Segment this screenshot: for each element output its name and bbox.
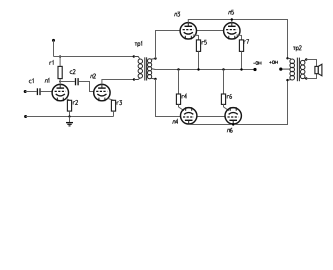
resistor R2 (r2): [67, 100, 71, 116]
tr2 primary winding: [290, 59, 295, 80]
wire V5 cathode to R7: [236, 35, 241, 40]
ground: [66, 117, 73, 126]
node tr2 primary top: [286, 57, 288, 59]
label r1: [50, 61, 53, 65]
label r5: [202, 40, 207, 44]
label r6: [227, 94, 232, 98]
label л5: [228, 10, 233, 14]
wire lower grid bus between tubes: [197, 116, 225, 118]
wire tr1 secondary bottom lead: [151, 77, 156, 80]
node V5 plate on rail: [231, 18, 233, 20]
label л4: [173, 120, 178, 124]
node tr1 primary bottom: [133, 78, 135, 80]
tr2 core: [297, 58, 299, 82]
wire tr1 bottom to lower grids: [156, 79, 181, 117]
node R5 on rail: [197, 68, 199, 70]
node R7 on rail: [240, 68, 242, 70]
wire R4 to V4 cathode: [179, 104, 184, 110]
node tr1 secondary top: [154, 57, 156, 59]
wire plate junction to C2: [60, 81, 75, 83]
wire tr2 secondary bottom lead: [304, 77, 306, 79]
resistor R7 (r7): [239, 40, 243, 70]
node tr1 primary top: [133, 55, 135, 57]
node R4 on rail: [177, 68, 179, 70]
label -ан: [253, 62, 261, 65]
label тр2: [293, 46, 301, 52]
wire V1 cathode to R2: [66, 98, 69, 100]
tube Л6 (output V6, inverted): [225, 107, 241, 124]
node -ан terminal: [253, 68, 256, 71]
label л2: [90, 74, 95, 78]
wire upper grid bus between tubes: [197, 30, 224, 32]
wire ground rail: [26, 116, 114, 118]
tr1 core: [145, 57, 147, 80]
node R1 top junction: [59, 55, 61, 57]
wire R6 to V6 cathode: [224, 104, 229, 110]
wire tr1 top to upper grids: [156, 31, 181, 59]
transformer тр1: [133, 55, 157, 80]
speaker: [315, 64, 322, 76]
node supply terminal top-left: [52, 39, 55, 42]
label тр1: [135, 42, 142, 48]
wire V1 plate to R1 and C2 tap: [59, 79, 61, 85]
wire C2 to V2 grid: [79, 82, 94, 92]
wire V2 plate to tr1 primary bottom: [102, 80, 134, 85]
transformer тр2: [279, 57, 307, 81]
wire anode top rail: [188, 20, 287, 59]
tube Л1 (triode V1): [52, 84, 68, 101]
tube Л3 (output V3): [180, 23, 196, 40]
wire tr2 primary top lead: [288, 57, 292, 60]
label r4: [182, 94, 187, 98]
tube Л4 (output V4, inverted): [181, 107, 197, 124]
wire tr2 primary bottom lead: [288, 79, 292, 82]
node input bottom terminal: [24, 115, 27, 118]
wire supply rail to tr1 primary top: [54, 56, 134, 58]
tr2 secondary winding: [300, 60, 305, 78]
resistor R6 (r6): [221, 70, 225, 105]
wire V2 cathode to R3: [108, 98, 114, 100]
wire tr2 secondary top lead: [304, 60, 306, 61]
wire tr1 secondary top lead: [151, 58, 156, 61]
tube Л2 (triode V2): [94, 84, 110, 101]
wire anode bottom rail: [189, 80, 288, 124]
wire C1 to V1 grid: [41, 91, 52, 93]
resistor R4 (r4): [176, 70, 180, 105]
wire V5 plate lead: [231, 20, 233, 23]
node tr2 primary bottom: [286, 79, 288, 81]
label л1: [45, 78, 49, 82]
resistor R5 (r5): [196, 40, 200, 70]
wire tr1 primary bottom lead: [134, 78, 140, 79]
label r2: [73, 100, 78, 104]
label r7: [244, 40, 249, 44]
wire tr2 center tap lead: [281, 68, 290, 70]
label +ан: [269, 61, 277, 64]
wire tr2 secondary to speaker bottom: [306, 74, 316, 79]
node tr2 secondary bottom: [305, 77, 307, 79]
capacitor C2 (с2): [76, 78, 79, 85]
wire tr1 secondary center tap lead: [152, 68, 156, 71]
wire tr1 primary top lead: [134, 57, 140, 59]
capacitor C1 (с1): [37, 88, 40, 95]
node V6 plate on rail: [232, 123, 234, 125]
wire center-tap common rail: [156, 69, 256, 71]
label с2: [70, 69, 75, 73]
label л3: [174, 12, 179, 16]
node R2 ground junction: [68, 115, 70, 117]
label r3: [117, 101, 122, 105]
wire input to C1: [25, 91, 37, 93]
tube Л5 (output V5): [224, 23, 240, 40]
wire tr2 secondary to speaker top: [306, 60, 316, 67]
node input top terminal: [24, 90, 27, 93]
resistor R3 (r3): [111, 100, 115, 116]
node plate junction V1: [59, 81, 61, 83]
tr1 secondary winding: [148, 59, 152, 79]
node +ан terminal: [279, 68, 282, 71]
label л6: [227, 128, 232, 132]
resistor R1 (r1): [58, 57, 62, 79]
wire supply drop: [53, 40, 55, 56]
tr1 primary winding: [138, 59, 142, 78]
node R6 on rail: [222, 68, 224, 70]
node tr1 secondary bottom: [154, 78, 156, 80]
wire V3 cathode to R5: [193, 35, 199, 40]
label с1: [29, 79, 33, 83]
node tr2 secondary top: [305, 58, 307, 60]
